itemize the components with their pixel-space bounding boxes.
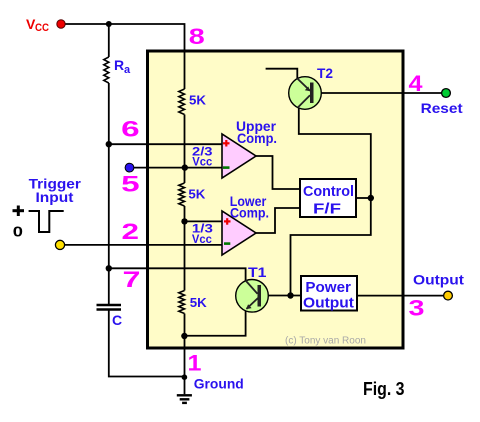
- svg-text:C: C: [112, 312, 122, 328]
- svg-text:2: 2: [122, 219, 140, 244]
- svg-text:T2: T2: [317, 65, 333, 81]
- svg-text:Comp.: Comp.: [237, 130, 277, 146]
- svg-text:Output: Output: [303, 295, 354, 312]
- svg-text:Control: Control: [303, 183, 354, 200]
- svg-text:5: 5: [121, 172, 140, 197]
- svg-text:7: 7: [123, 267, 141, 292]
- svg-text:Fig. 3: Fig. 3: [363, 379, 405, 399]
- svg-text:CC: CC: [35, 22, 49, 34]
- svg-text:Reset: Reset: [421, 100, 463, 116]
- svg-text:5K: 5K: [188, 187, 206, 202]
- svg-text:Output: Output: [413, 272, 464, 288]
- svg-text:6: 6: [121, 117, 140, 142]
- svg-text:Power: Power: [305, 279, 351, 296]
- svg-text:Input: Input: [36, 189, 74, 205]
- svg-text:a: a: [124, 64, 131, 76]
- svg-text:Comp.: Comp.: [230, 205, 269, 221]
- svg-text:5K: 5K: [189, 93, 207, 108]
- svg-text:R: R: [114, 57, 124, 73]
- svg-text:Ground: Ground: [194, 375, 244, 391]
- svg-text:(c) Tony van Roon: (c) Tony van Roon: [285, 336, 366, 347]
- svg-text:8: 8: [189, 24, 205, 49]
- svg-text:T1: T1: [248, 264, 267, 280]
- svg-text:0: 0: [13, 224, 23, 241]
- svg-text:Vcc: Vcc: [192, 232, 212, 246]
- svg-text:5K: 5K: [190, 295, 208, 310]
- svg-text:3: 3: [409, 295, 425, 320]
- svg-text:F/F: F/F: [313, 201, 341, 218]
- svg-text:4: 4: [409, 71, 424, 96]
- svg-text:1: 1: [188, 351, 202, 376]
- svg-text:Vcc: Vcc: [192, 155, 212, 169]
